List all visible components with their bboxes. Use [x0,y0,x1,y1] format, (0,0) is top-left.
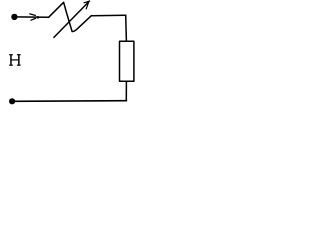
nonlinear element: variability arrow shaft [54,1,90,37]
nonlinear element: zigzag body [49,2,92,31]
label H: right stem [18,54,20,65]
nonlinear element: variability arrowhead lower barb [86,3,88,9]
label H: top-right serif [17,54,21,55]
label H: bottom-right serif [17,65,21,66]
node: top-left terminal dot [11,14,17,20]
resistor (box style) [120,41,134,81]
wire: right vertical down to resistor [125,15,128,41]
wire: bottom horizontal return [12,100,126,103]
label H: crossbar [11,59,19,60]
nonlinear element: variability arrowhead left barb [84,1,89,3]
current arrow tip point on top wire [37,16,40,19]
node: bottom-left terminal dot [9,98,15,104]
current arrow upper barb on top wire [30,14,36,16]
label H: top-left serif [9,54,13,55]
wire: top horizontal from terminal to nonlinear element [14,16,48,18]
current arrow lower barb on top wire [31,18,36,20]
label H: left stem [10,54,12,65]
wire: top-right horizontal [91,14,125,17]
wire: right vertical below resistor [125,81,127,101]
label H: bottom-left serif [9,65,13,66]
